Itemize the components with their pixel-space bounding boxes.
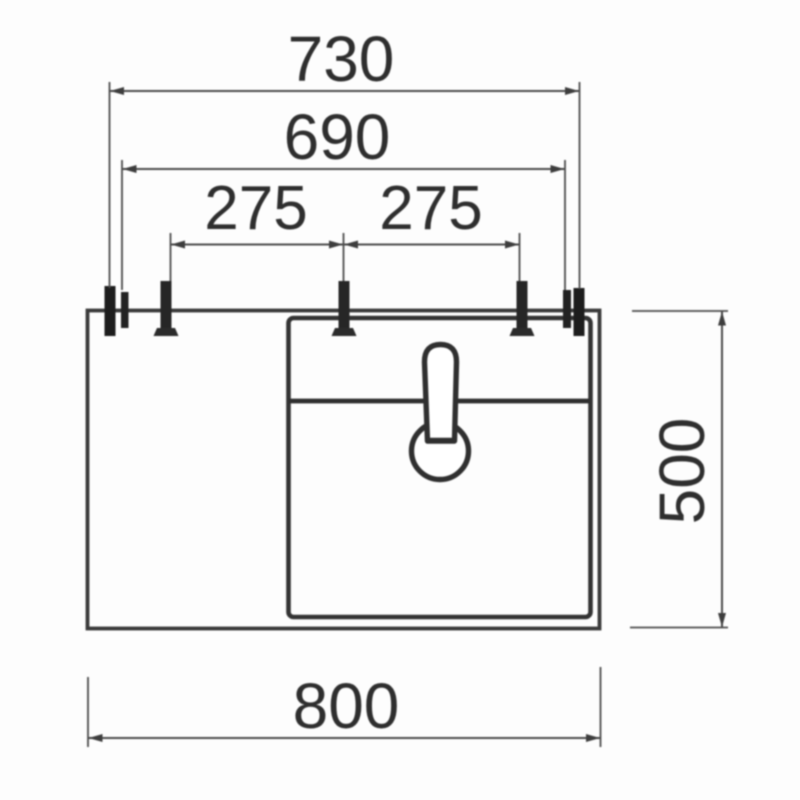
svg-text:800: 800 [293,670,400,742]
dim 275 line [171,244,520,246]
dim 800 arrow right [586,734,600,742]
dim 500 line [721,311,723,628]
right mount tick B [574,288,585,336]
dim 800 line [88,737,601,739]
dim 275 arrow left [171,241,185,249]
bolt right shank [517,281,528,328]
drain circle [412,423,469,480]
dim 275 arrow right [505,241,519,249]
dim 730 line [110,90,580,92]
dim 730 extension left [109,82,111,288]
dim 800 extension left [87,677,89,747]
cabinet outline (800x500 top view) [88,311,600,629]
bolt middle shank [339,281,350,328]
bolt left shank [161,281,172,328]
basin deck front edge line [289,399,591,404]
svg-text:690: 690 [284,101,391,173]
svg-text:275: 275 [204,174,307,243]
basin unit rectangle [289,318,591,617]
dim 500 arrow bottom [718,613,726,627]
bolt left base [154,328,179,336]
dim 730 arrow right [565,87,579,95]
svg-text:275: 275 [379,174,482,243]
dim 690 extension left [121,160,123,290]
dim 500 arrow top [718,312,726,326]
dim 730 extension right [579,82,581,289]
svg-text:730: 730 [288,23,395,95]
dim 275 arrows middle [329,241,358,249]
dim 690 arrow left [123,165,137,173]
dim 275 extension left [170,233,172,281]
bolt right base [510,328,535,336]
dim 690 extension right [564,160,566,290]
dim 800 extension right [600,667,602,747]
faucet body [425,345,457,442]
faucet spout tip line [427,438,455,443]
dim 275 extension right [519,233,521,281]
dim 275 extension middle [343,233,345,281]
dim 800 arrow left [89,734,103,742]
dim 500 extension bottom [630,627,728,629]
dim 690 line [122,168,565,170]
left mount tick A [105,286,116,336]
dim 730 arrow left [110,87,124,95]
right mount tick A [563,290,571,328]
left mount tick B [121,292,129,328]
dim 500 extension top [632,310,728,312]
svg-text:500: 500 [646,418,718,525]
dim 690 arrow right [551,165,565,173]
bolt middle base [332,328,357,336]
